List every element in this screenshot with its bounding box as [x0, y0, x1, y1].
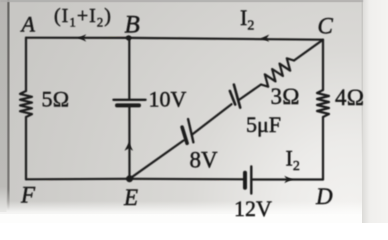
svg-text:10V: 10V	[149, 87, 187, 112]
svg-text:12V: 12V	[234, 196, 272, 221]
resistor R2 4ohm	[317, 90, 329, 117]
wire diagonal R3-C	[294, 40, 323, 61]
current arrow (I1+I2) on A-B wire	[78, 34, 86, 41]
wire diagonal E-8V	[130, 141, 184, 179]
resistor R3 3ohm	[261, 58, 294, 86]
current arrow I2 on B-C wire	[261, 35, 269, 42]
wire left resistor-A	[25, 38, 27, 91]
current arrow I2 on bottom wire near D	[284, 176, 292, 183]
battery B3 12V short plate	[243, 173, 247, 188]
wire middle B-battery10V	[128, 38, 130, 100]
current arrow up on E-B wire	[125, 143, 134, 151]
photo left border	[0, 0, 1, 1]
svg-text:E: E	[123, 185, 138, 210]
wire right resistor-D	[322, 117, 324, 180]
photo right edge line	[0, 0, 1, 1]
wire left F-A	[25, 117, 27, 179]
resistor R1 5ohm	[20, 91, 32, 117]
wire top B-C	[129, 38, 323, 40]
wire diagonal 8V-capacitor	[193, 104, 232, 134]
svg-text:D: D	[315, 184, 333, 209]
svg-text:5μF: 5μF	[246, 112, 281, 137]
wire top A-B	[26, 37, 129, 39]
node B dot	[126, 35, 131, 40]
svg-text:B: B	[125, 12, 140, 39]
wire middle battery10V-E	[128, 106, 130, 179]
svg-text:A: A	[20, 12, 36, 37]
svg-text:3Ω: 3Ω	[271, 84, 300, 109]
wire bottom D-E	[253, 178, 324, 180]
svg-text:F: F	[20, 183, 36, 208]
battery B2 8V short plate	[182, 127, 187, 143]
wire bottom battery-E	[130, 178, 245, 181]
capacitor C1 plate 1	[230, 91, 235, 105]
photo top border	[0, 0, 363, 2]
svg-text:4Ω: 4Ω	[335, 85, 364, 110]
wire diagonal capacitor-R3	[239, 85, 261, 100]
wire bottom E-F	[26, 178, 130, 181]
wire right C-D	[322, 40, 324, 90]
battery B1 10V long plate	[114, 99, 146, 101]
capacitor C1 plate 2	[234, 85, 240, 108]
battery B3 12V long plate	[250, 167, 252, 194]
svg-text:8V: 8V	[190, 148, 219, 173]
node E dot	[126, 175, 133, 182]
battery B2 8V long plate	[188, 119, 193, 142]
svg-text:5Ω: 5Ω	[42, 87, 70, 112]
battery B1 10V short plate	[117, 103, 139, 107]
svg-text:C: C	[318, 14, 334, 39]
